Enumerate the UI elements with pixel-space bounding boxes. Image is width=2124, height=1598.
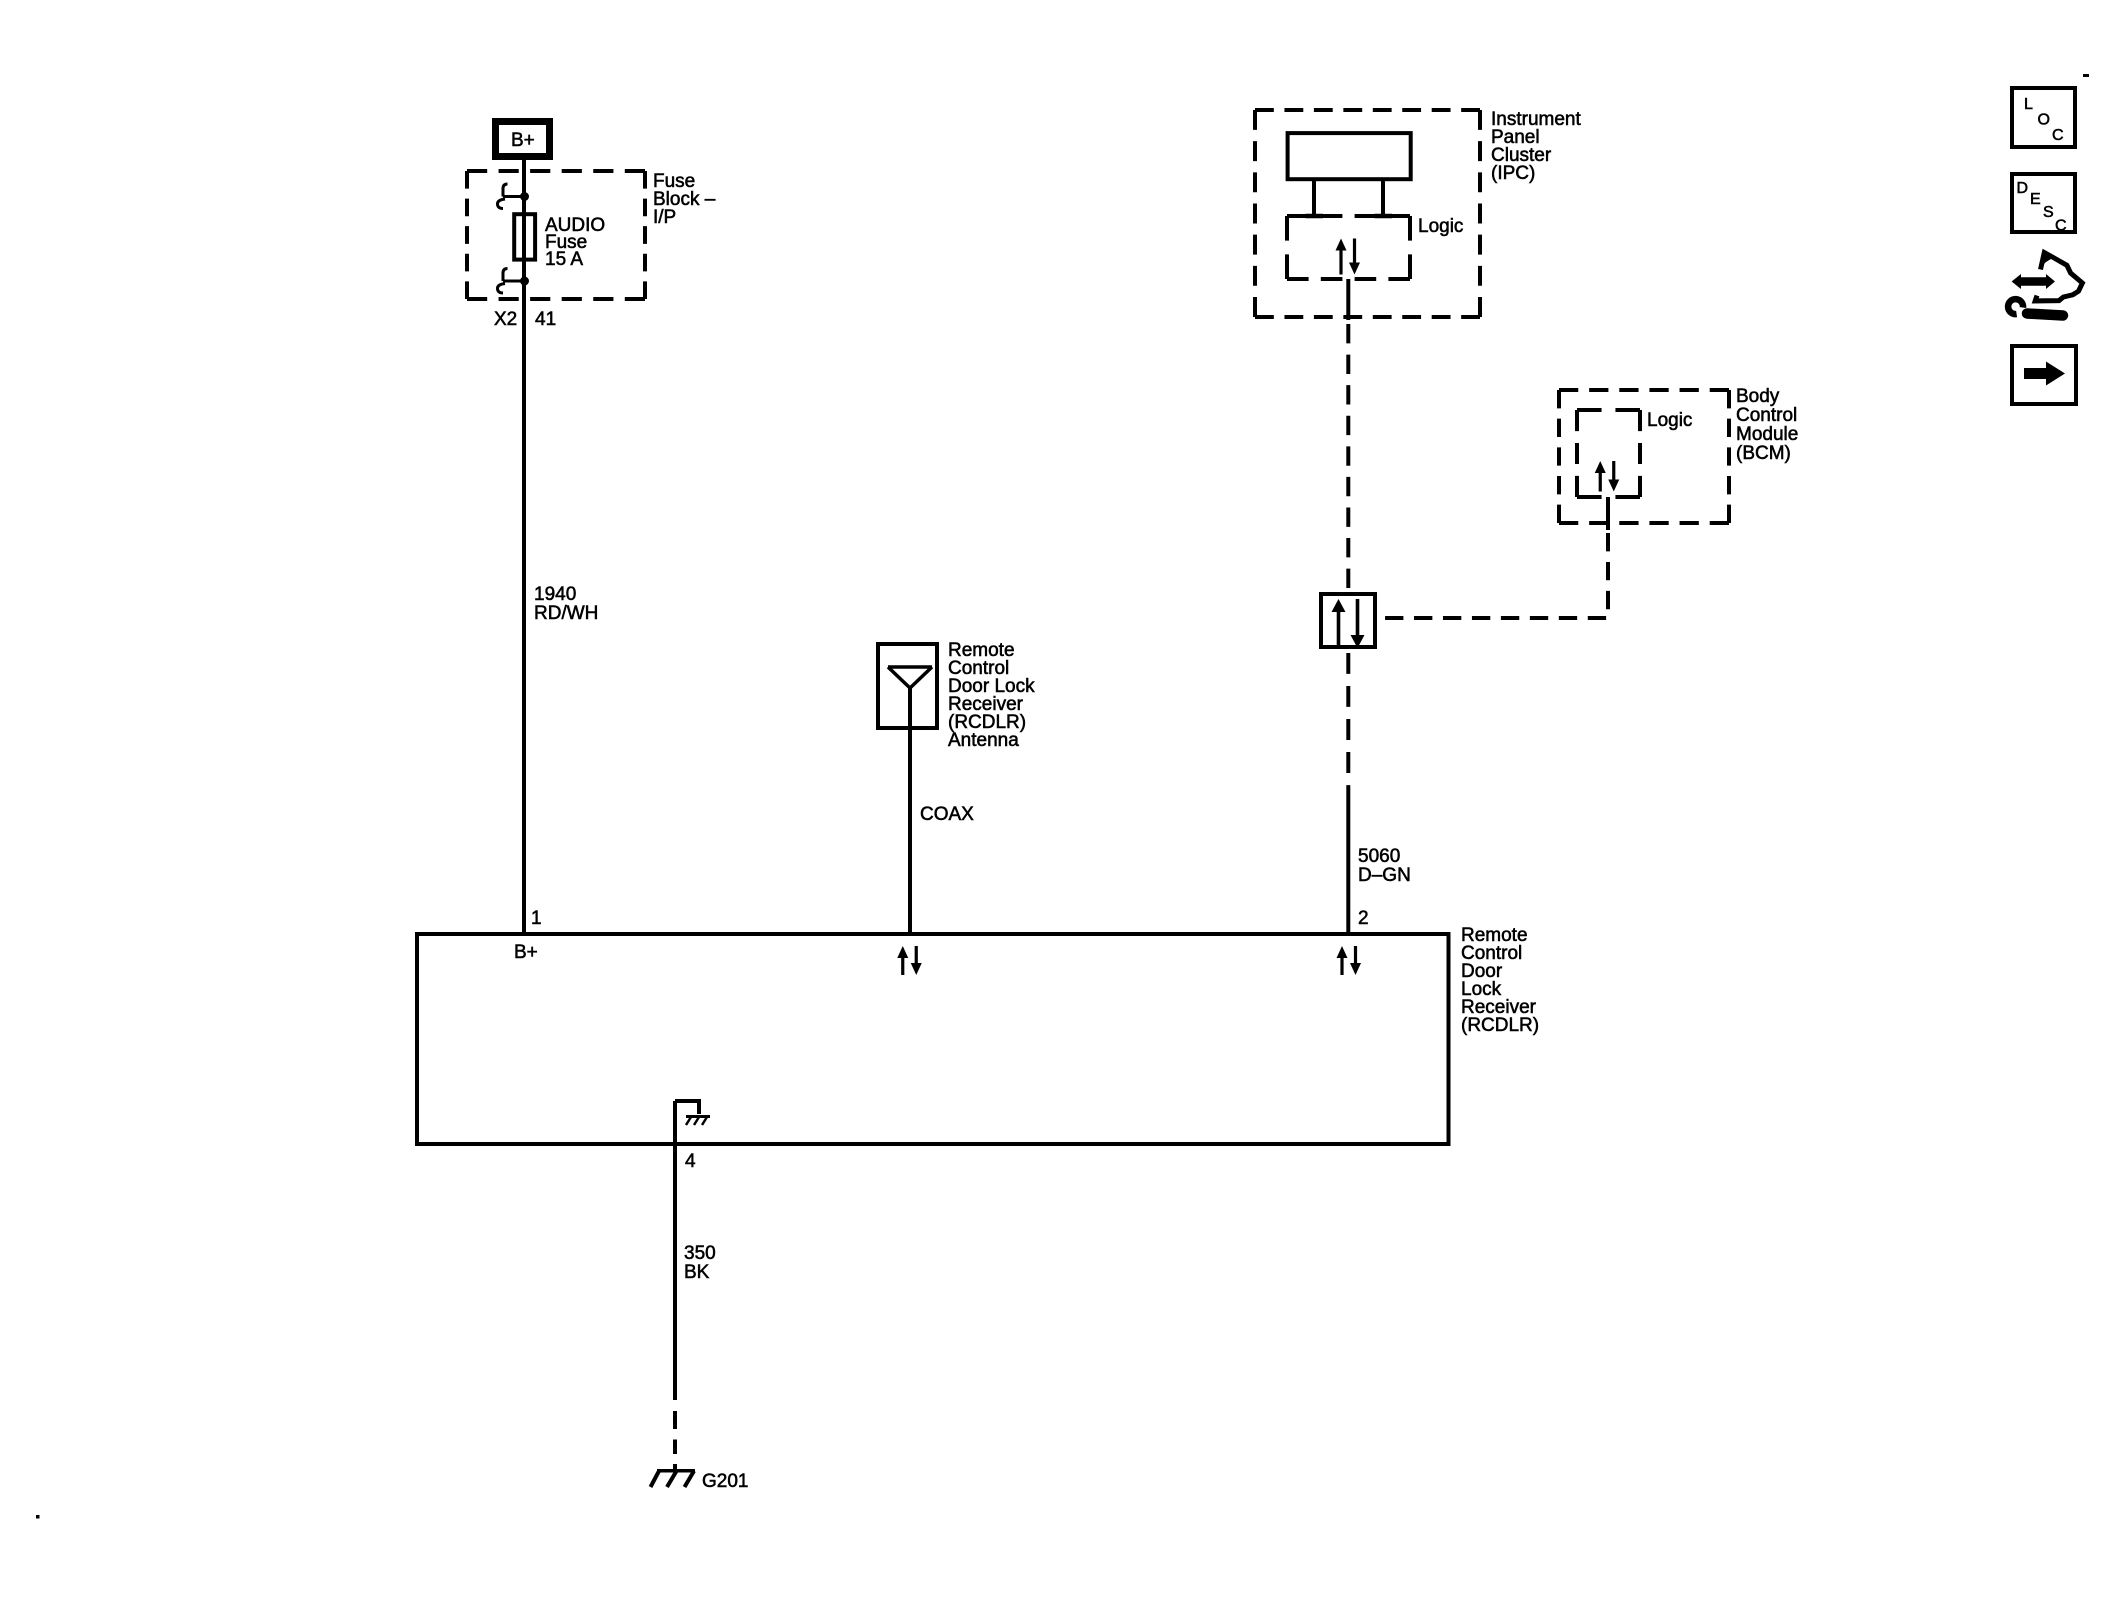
svg-text:C: C	[2052, 127, 2064, 144]
svg-text:O: O	[2038, 112, 2050, 129]
svg-text:(IPC): (IPC)	[1491, 163, 1535, 184]
svg-text:BK: BK	[684, 1262, 710, 1283]
svg-text:B+: B+	[511, 130, 535, 151]
svg-text:1: 1	[531, 908, 542, 929]
svg-text:D–GN: D–GN	[1358, 865, 1411, 886]
svg-text:B+: B+	[514, 942, 538, 963]
svg-text:Antenna: Antenna	[948, 730, 1019, 751]
svg-text:Control: Control	[1736, 405, 1797, 426]
svg-text:RD/WH: RD/WH	[534, 603, 598, 624]
svg-text:4: 4	[685, 1151, 696, 1172]
svg-text:E: E	[2030, 191, 2041, 208]
svg-text:G201: G201	[702, 1471, 748, 1492]
svg-text:X2: X2	[494, 309, 517, 330]
svg-text:Logic: Logic	[1647, 410, 1692, 431]
svg-text:15 A: 15 A	[545, 249, 583, 270]
svg-text:1940: 1940	[534, 584, 576, 605]
svg-text:2: 2	[1358, 908, 1369, 929]
svg-text:(RCDLR): (RCDLR)	[1461, 1015, 1539, 1036]
svg-text:Module: Module	[1736, 424, 1798, 445]
svg-text:S: S	[2043, 204, 2054, 221]
svg-text:5060: 5060	[1358, 846, 1400, 867]
svg-text:350: 350	[684, 1243, 716, 1264]
svg-text:C: C	[2055, 218, 2067, 235]
svg-text:L: L	[2024, 96, 2033, 113]
svg-text:D: D	[2017, 180, 2029, 197]
svg-text:I/P: I/P	[653, 207, 676, 228]
svg-text:COAX: COAX	[920, 804, 974, 825]
svg-text:(BCM): (BCM)	[1736, 443, 1791, 464]
svg-text:Body: Body	[1736, 386, 1780, 407]
svg-text:Logic: Logic	[1418, 216, 1463, 237]
svg-text:41: 41	[535, 309, 556, 330]
